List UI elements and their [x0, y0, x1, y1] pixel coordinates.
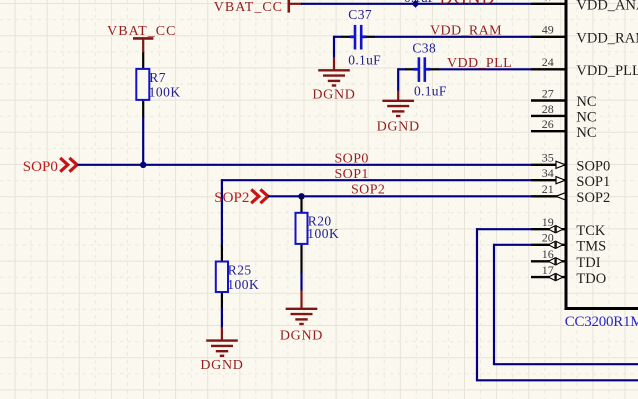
wire SOP1 — [222, 179, 531, 246]
svg-text:21: 21 — [542, 182, 554, 196]
net label DGND (clipped at top) — [440, 0, 496, 7]
wire VDD_PLL: C38 to pin 24 — [398, 68, 531, 91]
wire TCK (pin 19) — [476, 228, 638, 380]
wire SOP2 — [268, 195, 531, 197]
svg-text:VDD_PLL: VDD_PLL — [447, 56, 512, 71]
pin 26 NC — [531, 117, 597, 141]
svg-text:SOP0: SOP0 — [23, 159, 58, 175]
svg-text:VBAT_CC: VBAT_CC — [107, 24, 176, 39]
ground DGND (C38) — [397, 91, 399, 101]
pin 24 VDD_PLL — [531, 55, 638, 79]
pin 35 SOP0 — [531, 151, 610, 175]
svg-text:NC: NC — [576, 125, 596, 141]
svg-text:24: 24 — [542, 55, 554, 69]
svg-text:100K: 100K — [307, 226, 339, 241]
pin 17 TDO — [531, 263, 606, 287]
svg-text:CC3200R1M2RGC: CC3200R1M2RGC — [565, 314, 638, 330]
svg-text:NC: NC — [576, 110, 596, 126]
pin 20 TMS — [531, 231, 606, 255]
svg-text:DGND: DGND — [440, 0, 496, 7]
svg-text:28: 28 — [542, 102, 554, 116]
pin 16 TDI — [531, 247, 601, 271]
resistor R25 100K — [216, 245, 259, 308]
port SOP0 — [23, 158, 77, 175]
svg-text:C38: C38 — [412, 41, 436, 56]
svg-text:C37: C37 — [348, 7, 372, 22]
pin 49 VDD_RAM2 — [531, 23, 638, 47]
ground DGND (C37) — [333, 57, 335, 70]
power port VBAT_CC (above R7) — [107, 24, 176, 53]
svg-text:TDO: TDO — [576, 271, 606, 287]
svg-text:0.1uF: 0.1uF — [414, 84, 447, 99]
svg-text:SOP1: SOP1 — [335, 167, 369, 182]
pin 47 VDD_ANA2 — [531, 0, 638, 14]
svg-text:VDD_RAM2: VDD_RAM2 — [576, 31, 638, 47]
svg-text:SOP0: SOP0 — [576, 159, 610, 175]
svg-text:SOP0: SOP0 — [335, 152, 369, 167]
svg-text:R25: R25 — [228, 263, 252, 278]
IC U1 CC3200R1M body edge — [565, 0, 638, 309]
svg-text:DGND: DGND — [280, 328, 323, 343]
wire TMS (pin 20) — [493, 244, 638, 365]
port SOP2 — [214, 189, 268, 205]
net label SOP2 — [351, 183, 385, 198]
capacitor C37 — [341, 7, 381, 68]
wire SOP0 — [78, 164, 532, 166]
svg-text:VBAT_CC: VBAT_CC — [214, 0, 283, 15]
svg-text:0.1uF: 0.1uF — [404, 0, 436, 5]
svg-text:SOP1: SOP1 — [576, 174, 610, 190]
svg-text:100K: 100K — [149, 84, 181, 99]
pin 19 TCK — [531, 215, 606, 239]
svg-text:R7: R7 — [149, 70, 166, 85]
svg-text:100K: 100K — [227, 277, 259, 292]
wire VDD_RAM: C37 to pin 49 — [334, 36, 531, 58]
pin 28 NC — [531, 102, 597, 126]
svg-text:SOP2: SOP2 — [576, 190, 610, 206]
net label SOP1 — [335, 167, 369, 182]
junction SOP0/R7 — [140, 162, 146, 168]
svg-text:TDI: TDI — [576, 255, 600, 271]
svg-text:DGND: DGND — [200, 358, 243, 373]
junction on VBAT_CC wire — [412, 0, 420, 8]
ground DGND (R25) — [221, 327, 223, 341]
junction SOP2/R20 — [298, 193, 304, 199]
capacitor C38 — [405, 41, 447, 99]
value label 0.1uF (clipped at top) — [404, 0, 436, 5]
svg-text:VDD_RAM: VDD_RAM — [430, 23, 502, 38]
net label VDD_PLL — [447, 56, 512, 71]
IC part number CC3200R1M — [565, 314, 638, 330]
pin 27 NC — [531, 86, 597, 110]
svg-text:34: 34 — [542, 166, 554, 180]
wire VBAT_CC to pin 47 — [301, 3, 531, 5]
svg-text:VDD_PLL: VDD_PLL — [576, 63, 638, 79]
svg-text:0.1uF: 0.1uF — [348, 53, 381, 68]
wire R7 to SOP0 net — [142, 117, 144, 165]
pin 21 SOP2 — [531, 182, 610, 206]
resistor R20 100K — [296, 196, 340, 290]
net label VDD_RAM — [430, 23, 502, 38]
svg-text:TMS: TMS — [576, 239, 606, 255]
svg-text:TCK: TCK — [576, 223, 606, 239]
pin 34 SOP1 — [531, 166, 610, 190]
svg-text:49: 49 — [542, 23, 554, 37]
svg-text:SOP2: SOP2 — [351, 183, 385, 198]
svg-text:47: 47 — [542, 0, 554, 4]
svg-text:27: 27 — [542, 86, 554, 100]
resistor R7 100K — [136, 52, 180, 117]
svg-text:35: 35 — [542, 151, 554, 165]
ground DGND (R20) — [300, 290, 302, 309]
svg-text:NC: NC — [576, 94, 596, 110]
wire R25 to ground — [221, 308, 223, 328]
net label SOP0 — [335, 152, 369, 167]
svg-text:26: 26 — [542, 117, 554, 131]
svg-text:DGND: DGND — [312, 88, 355, 103]
svg-text:SOP2: SOP2 — [214, 190, 249, 206]
svg-text:DGND: DGND — [377, 119, 420, 134]
power port VBAT_CC (top) — [214, 0, 302, 15]
svg-text:VDD_ANA2: VDD_ANA2 — [576, 0, 638, 14]
